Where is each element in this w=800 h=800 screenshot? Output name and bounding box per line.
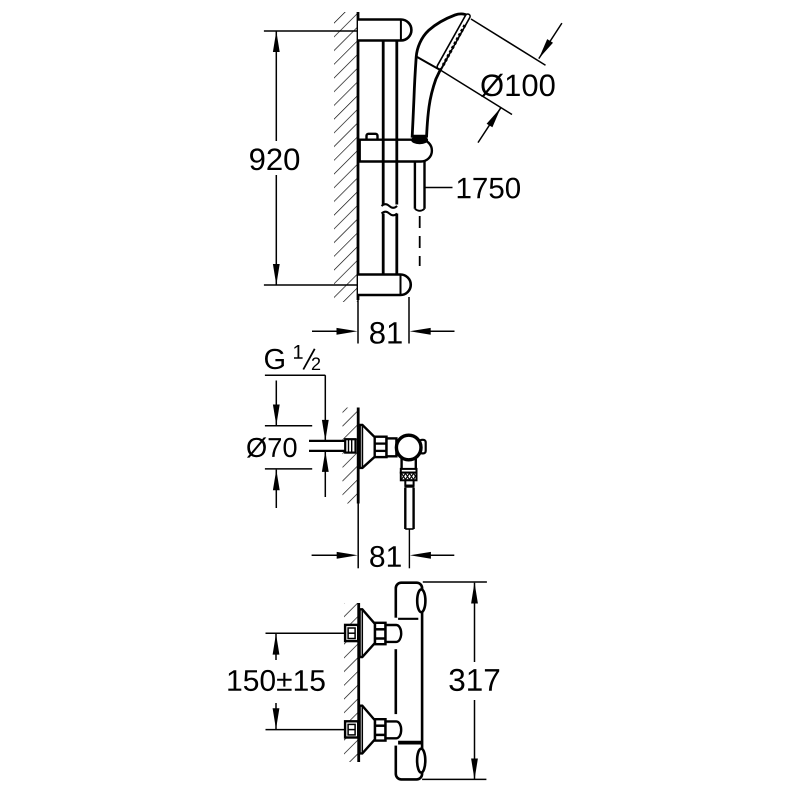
label 81 (top view) [370,322,402,344]
mixer handle tab [420,440,426,454]
bottom inlet connection [345,706,401,754]
dimension 317: extension lines [422,582,487,779]
dimension 81 (top view): dimension line and arrows [312,330,455,332]
thermostat body [396,583,422,780]
label 317 [449,669,499,691]
outlet knurled connector [401,473,417,481]
bottom bracket of rail [358,275,411,296]
mixer hex nut [375,437,387,457]
mixer hose [405,488,413,529]
shower hose (solid part) [415,162,425,211]
dimension diameter 100: extension lines [440,19,546,115]
dimension 81 (middle view): dimension line and arrows [312,554,455,556]
label 81 (middle view) [370,546,401,567]
dimension 920: arrowheads [273,31,280,52]
hose centre extension line for 81 [408,529,410,568]
shower head face plate (stadium) [440,16,468,66]
dimension 920: dimension line [275,31,277,285]
wall hatch (bottom view) [344,603,359,762]
wall line (middle view) [357,408,360,504]
label 920 [250,148,299,170]
handle grip dark band [411,136,428,144]
top bracket of rail [358,20,411,41]
dimension 81 (top view): extension lines [358,297,409,344]
mixer escutcheon [360,425,375,468]
wall extension line for 81 [357,504,359,569]
shower rail tube [383,41,397,275]
supply pipe [309,441,345,451]
body top cap line [396,618,419,620]
wall hatch (top view) [334,12,358,302]
bottom knob ellipse [417,749,425,773]
top inlet connection [345,609,401,657]
hose nut dark band [405,485,415,488]
wall hatch (middle view) [343,408,359,504]
label G 1/2 [265,349,284,370]
dimension 317: arrows [474,583,476,662]
mixer outlet [402,458,416,469]
mixer body [387,438,397,456]
dimension 920: extension lines [264,31,357,285]
label diameter 100 [481,74,554,97]
extension line 150 top [266,632,346,634]
top knob ellipse [417,589,425,612]
dimension diameter 70: extension lines [265,426,312,469]
G 1/2 vertical dimension line with arrows [324,375,326,441]
leader line for 1750 [425,187,452,189]
G 1/2 underline [265,374,325,376]
label diameter 70 [247,437,297,457]
outlet neck [405,480,413,485]
head/handle seam line [416,57,440,70]
rail break squiggles [382,204,398,215]
body bottom cap line [396,741,422,745]
pipe union nut [345,439,355,452]
dimension diameter 100: upper arrow [539,23,562,59]
mixer valve head circle [396,435,421,460]
spray nozzle dashes [443,25,465,65]
label 150±15 [228,670,324,691]
wall line (bottom view) [357,603,360,762]
dimension 150±15: arrows [275,634,277,660]
dimension diameter 70: arrows [275,381,277,426]
wall line (top view) [357,12,360,300]
shower hose dashed continuation [419,216,421,266]
label 1750 (hose length) [458,178,520,199]
extension line 150 bottom [266,729,346,731]
dimension diameter 100: lower arrow [478,108,501,143]
hand shower head and handle outline [412,14,469,136]
outlet flange [401,469,417,473]
slider holder on rail [360,134,432,162]
